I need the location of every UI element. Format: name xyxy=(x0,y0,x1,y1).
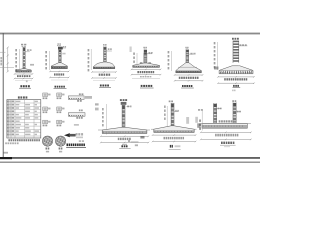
rebar bend detail r3c2 xyxy=(57,120,65,126)
sheet bottom frame line xyxy=(0,157,260,159)
circled rebar detail c1 xyxy=(41,136,56,152)
circled rebar detail c2 xyxy=(54,136,69,152)
rebar bend detail r2c2 xyxy=(57,107,65,113)
bold sub-title (middle) xyxy=(66,140,86,147)
beam section detail DL1 xyxy=(68,93,92,101)
beam section detail DL2 xyxy=(68,110,85,126)
section cut symbol detail xyxy=(64,133,83,138)
rebar bend detail r1c1 xyxy=(43,93,51,99)
note text at frame corner xyxy=(4,152,9,154)
sheet left frame line xyxy=(2,33,4,158)
table notes text xyxy=(5,139,40,144)
rebar bend detail r2c1 xyxy=(43,107,51,113)
sheet top edge line xyxy=(0,33,260,35)
dimension tick crossing left frame xyxy=(0,51,6,53)
rebar bend detail r1c2 xyxy=(57,93,65,99)
combined two-column foundation section xyxy=(186,100,252,147)
foundation detail J3 xyxy=(88,44,117,88)
foundation schedule table xyxy=(7,100,41,138)
scale label marks xyxy=(128,140,138,146)
rebar bend detail r3c1 xyxy=(43,120,51,126)
foundation detail J2 xyxy=(45,43,69,88)
foundation detail J5 xyxy=(168,47,204,88)
strip foundation section 1-1 xyxy=(95,99,150,149)
strip foundation section 2-2 xyxy=(151,101,197,150)
foundation detail J4 xyxy=(130,47,162,89)
foundation detail J1 xyxy=(0,44,34,88)
foundation detail J6 xyxy=(214,38,255,91)
sheet outer bottom edge line xyxy=(0,162,260,163)
foundation schedule table title xyxy=(18,96,27,98)
